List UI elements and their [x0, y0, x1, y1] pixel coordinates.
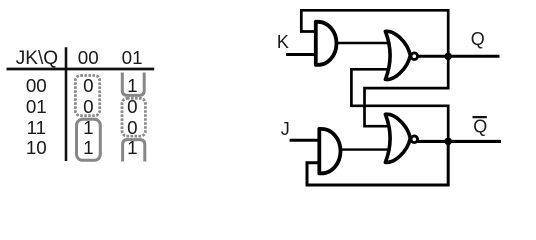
- svg-text:10: 10: [26, 137, 47, 158]
- svg-text:0: 0: [127, 117, 137, 138]
- wire Qbar output: [418, 140, 502, 143]
- NOR gate U2 output bubble: [411, 53, 418, 60]
- svg-text:01: 01: [122, 47, 143, 68]
- dashed group box column 01 rows 01-11: [122, 98, 145, 136]
- solid group box column 00 rows 11-10: [77, 119, 101, 160]
- NOR gate U2 top body: [385, 31, 410, 79]
- wire AND1 output to NOR1 top input: [335, 42, 390, 44]
- svg-text:0: 0: [127, 96, 137, 117]
- AND gate U1 top (K side): [316, 22, 337, 65]
- dashed group box column 00 rows 00-01: [75, 76, 99, 116]
- svg-text:Q: Q: [473, 117, 487, 137]
- svg-text:K: K: [277, 32, 289, 52]
- wire top feedback rail from node Q to AND1 top input: [301, 10, 448, 56]
- wire bottom feedback rail from node Qbar to AND2 bottom input: [307, 141, 448, 185]
- svg-text:1: 1: [83, 117, 93, 138]
- junction node Q: [444, 53, 452, 61]
- svg-text:01: 01: [26, 96, 47, 117]
- svg-text:1: 1: [83, 137, 93, 158]
- svg-text:J: J: [281, 119, 290, 139]
- svg-text:0: 0: [83, 75, 93, 96]
- svg-text:JK\Q: JK\Q: [16, 48, 58, 69]
- NOR gate U4 output bubble: [411, 136, 418, 143]
- svg-text:00: 00: [78, 47, 99, 68]
- solid wrap group column 01 top (open top): [122, 73, 144, 96]
- solid wrap group column 01 bottom (open bottom): [123, 140, 145, 162]
- svg-text:0: 0: [83, 96, 93, 117]
- svg-text:1: 1: [127, 75, 137, 96]
- table vertical divider: [65, 47, 68, 161]
- wire J input: [290, 139, 321, 142]
- wire crosscouple Qbar to NOR1 bottom input: [351, 69, 448, 141]
- wire crosscouple Q to NOR2 top input: [365, 56, 449, 126]
- wire AND2 output to NOR2 bottom input: [338, 148, 390, 150]
- table horizontal divider: [7, 68, 155, 71]
- svg-text:1: 1: [127, 137, 137, 158]
- NOR gate U4 bottom body: [385, 114, 410, 162]
- svg-text:Q: Q: [471, 29, 485, 49]
- junction node Qbar: [444, 138, 452, 146]
- wire Q output: [417, 55, 500, 58]
- AND gate U3 bottom (J side): [319, 129, 340, 174]
- label Qbar overline: [473, 116, 487, 118]
- svg-text:00: 00: [26, 75, 47, 96]
- wire K input: [286, 53, 317, 56]
- svg-text:11: 11: [27, 117, 47, 138]
